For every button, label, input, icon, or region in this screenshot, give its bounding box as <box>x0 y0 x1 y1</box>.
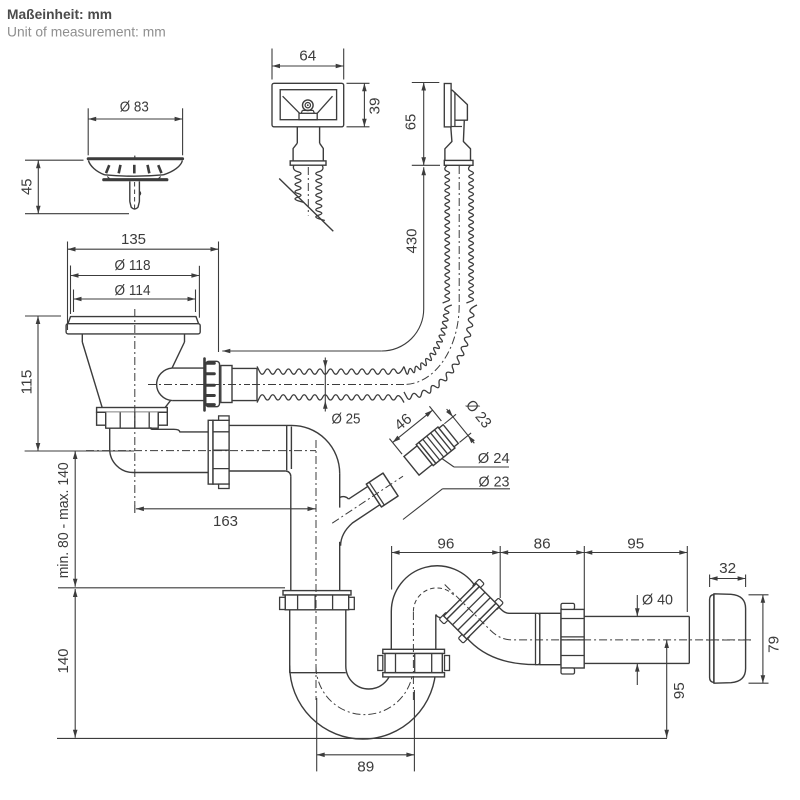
svg-text:Ø 25: Ø 25 <box>332 411 361 428</box>
dimension min80-max140 <box>55 451 285 588</box>
overflow side view <box>444 84 473 166</box>
svg-text:430: 430 <box>403 229 420 254</box>
svg-text:96: 96 <box>437 536 454 553</box>
dimension 65 <box>403 83 440 166</box>
union nut on trap inlet <box>208 416 229 489</box>
svg-text:Ø 23: Ø 23 <box>479 473 510 490</box>
svg-text:86: 86 <box>534 536 551 553</box>
dimension O114 <box>74 282 196 312</box>
outlet union nut <box>536 603 585 674</box>
funnel lock nut <box>97 408 168 429</box>
svg-text:Maßeinheit: mm: Maßeinheit: mm <box>7 7 112 22</box>
title line 1 (Masseinheit: mm) <box>7 7 112 22</box>
dimension O118 <box>71 257 200 318</box>
trap centerlines <box>86 309 751 700</box>
svg-text:163: 163 <box>213 513 238 530</box>
hose end pipe and sleeve <box>221 366 257 403</box>
svg-text:32: 32 <box>719 560 736 577</box>
svg-text:95: 95 <box>627 536 644 553</box>
dimension 32 <box>710 560 746 587</box>
svg-text:79: 79 <box>765 636 782 653</box>
dimension O40 <box>635 592 673 686</box>
dimension 430 <box>222 167 426 353</box>
trap inlet vertical pipe <box>229 425 340 590</box>
svg-text:135: 135 <box>121 231 146 248</box>
dimension 79 <box>749 595 783 683</box>
union nut at hose-drain joint <box>205 359 220 411</box>
dimension 64 <box>272 47 344 79</box>
dimension O23 leader <box>403 473 510 519</box>
hose centerline <box>250 166 459 385</box>
svg-text:Ø 114: Ø 114 <box>115 282 151 299</box>
svg-text:45: 45 <box>18 179 35 196</box>
trap union nut on riser <box>378 649 450 677</box>
svg-text:65: 65 <box>403 114 420 131</box>
dimension 135 <box>68 231 219 352</box>
tilted union nut 45deg <box>439 579 503 643</box>
svg-text:Ø 83: Ø 83 <box>120 99 149 116</box>
svg-text:Ø 40: Ø 40 <box>642 592 673 609</box>
drain elbow and lower pipe <box>110 427 209 472</box>
trap U-bend <box>290 655 436 739</box>
dimension O83 <box>88 99 182 156</box>
dimensions 96 86 95 <box>392 536 688 612</box>
dimension 89 <box>317 690 415 776</box>
svg-text:95: 95 <box>671 682 688 699</box>
svg-text:min. 80 - max. 140: min. 80 - max. 140 <box>55 462 72 578</box>
svg-text:140: 140 <box>55 649 72 674</box>
dimension 45 <box>18 160 129 214</box>
trap riser and top bend <box>391 566 476 649</box>
corrugated hose <box>257 166 477 403</box>
dimension 95 vertical <box>664 640 688 738</box>
hose adapter with dimensions 46 and O23 <box>382 370 498 483</box>
hose cut line <box>279 179 333 232</box>
svg-text:115: 115 <box>19 370 36 395</box>
wall escutcheon <box>706 594 751 683</box>
svg-text:89: 89 <box>357 759 374 776</box>
dimension 39 <box>347 83 384 127</box>
svg-text:Ø 24: Ø 24 <box>478 450 510 467</box>
outlet pipe <box>584 616 689 663</box>
dimension O25 <box>323 358 361 428</box>
trap outlet 45deg fitting <box>467 607 535 665</box>
svg-text:Ø 118: Ø 118 <box>115 257 151 274</box>
overflow front view <box>272 83 344 165</box>
svg-text:Unit of measurement: mm: Unit of measurement: mm <box>7 24 166 39</box>
svg-text:39: 39 <box>367 98 384 115</box>
trap body upper section <box>290 610 346 673</box>
dishwasher branch nozzle <box>332 473 403 546</box>
svg-text:64: 64 <box>299 47 316 64</box>
dimension 115 <box>19 316 134 451</box>
dimension 140 <box>55 589 667 738</box>
dimension 163 <box>135 505 316 530</box>
drain flange and funnel <box>66 317 204 408</box>
overflow front hose stub <box>293 165 324 220</box>
trap union nut upper <box>280 591 355 610</box>
title line 2 (Unit of measurement: mm) <box>7 24 166 39</box>
dimension O24 leader <box>439 450 510 467</box>
strainer basket <box>88 156 182 210</box>
